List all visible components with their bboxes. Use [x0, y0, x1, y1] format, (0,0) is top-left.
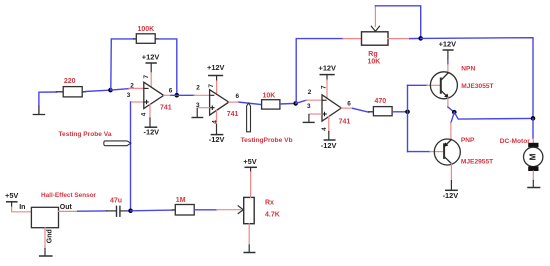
motor M1 DC-Motor [500, 138, 543, 181]
node B junction [293, 101, 298, 106]
wire 1M to Rx wiper [194, 209, 216, 211]
wire node E down to PNP emitter [451, 112, 454, 123]
node D junction [405, 110, 410, 115]
svg-text:470: 470 [375, 98, 387, 105]
svg-text:+12V: +12V [142, 52, 160, 61]
svg-text:-12V: -12V [144, 128, 160, 137]
svg-text:6: 6 [347, 100, 351, 107]
svg-text:Testing Probe Va: Testing Probe Va [59, 131, 112, 138]
svg-text:6: 6 [236, 93, 240, 100]
wire node C to right rail and down to motor node [421, 38, 533, 119]
+12V supply Q1 [439, 39, 457, 73]
svg-text:7: 7 [321, 85, 328, 89]
potentiometer Rg 10K [343, 6, 410, 66]
wire motor node down to motor [532, 118, 534, 138]
svg-text:220: 220 [64, 78, 76, 85]
wire node A to op-amp U1 pin2 [111, 89, 130, 91]
ground GND1 (left input) [33, 106, 44, 115]
svg-text:DC-Motor: DC-Motor [500, 138, 530, 145]
svg-text:4: 4 [321, 127, 328, 131]
probe Testing Probe Va [59, 131, 131, 146]
svg-text:Hall-Effect Sensor: Hall-Effect Sensor [41, 192, 97, 199]
wire U1 output to U2 pin2 [164, 94, 171, 96]
op-amp U1 741 [127, 52, 173, 136]
wire NPN emitter to node E [447, 97, 449, 107]
wire op-amp U1 pin3 down to cap node [131, 101, 144, 103]
svg-text:-12V: -12V [321, 141, 337, 150]
op-amp U3 741 [303, 64, 351, 151]
wire base bus vertical [407, 85, 409, 151]
svg-text:+12V: +12V [207, 63, 225, 72]
svg-text:10K: 10K [368, 59, 381, 66]
svg-text:2: 2 [196, 84, 200, 91]
wire R220 to node A [86, 90, 111, 91]
svg-text:M: M [529, 153, 538, 160]
svg-text:4: 4 [140, 112, 147, 116]
svg-text:741: 741 [339, 119, 351, 126]
ground Rx [244, 224, 255, 253]
svg-text:-12V: -12V [209, 135, 225, 144]
svg-text:NPN: NPN [461, 66, 475, 73]
svg-text:In: In [19, 204, 25, 211]
wire U3 output to R470 [341, 107, 352, 109]
wire 10K to node B [280, 102, 296, 105]
probe TestingProbe Vb [241, 103, 293, 144]
capacitor C1 47u [107, 198, 127, 217]
wire node F to R 1M [131, 209, 173, 212]
resistor R5 1M [173, 197, 195, 215]
node A junction [108, 88, 113, 93]
node output U1 [175, 93, 180, 98]
wire feedback left/top [111, 39, 134, 90]
svg-text:TestingProbe Vb: TestingProbe Vb [241, 137, 293, 144]
wire hall out to cap [78, 210, 107, 212]
svg-text:741: 741 [160, 105, 172, 112]
resistor R2 100K [134, 26, 158, 44]
node F junction [128, 209, 133, 214]
svg-text:4: 4 [212, 120, 219, 124]
hall-effect sensor box [19, 192, 96, 248]
svg-text:47u: 47u [110, 198, 122, 205]
+5V supply hall [5, 191, 31, 212]
svg-text:+5V: +5V [243, 157, 256, 166]
svg-text:2: 2 [308, 89, 312, 96]
wire to NPN base [408, 84, 428, 86]
-12V supply Q2 [443, 164, 459, 200]
node C junction [418, 36, 423, 41]
wire cap to node F [127, 210, 131, 212]
svg-text:Gnd: Gnd [47, 229, 54, 243]
svg-text:MJE3055T: MJE3055T [461, 83, 493, 90]
svg-text:MJE2955T: MJE2955T [461, 159, 493, 166]
svg-text:4.7K: 4.7K [265, 211, 280, 218]
svg-text:7: 7 [143, 75, 150, 79]
wire feedback right down to output node [158, 39, 177, 95]
wire to PNP base [408, 151, 431, 153]
potentiometer Rx 4.7K [244, 197, 280, 223]
svg-text:-12V: -12V [443, 191, 459, 200]
svg-text:7: 7 [208, 84, 215, 88]
resistor R220 220 [57, 78, 86, 97]
wire node B up to Rg [296, 39, 343, 104]
transistor Q2 PNP MJE2955T [434, 137, 493, 166]
svg-text:6: 6 [169, 87, 173, 94]
svg-text:Rx: Rx [265, 200, 274, 207]
svg-text:741: 741 [227, 111, 239, 118]
svg-text:3: 3 [127, 92, 131, 99]
wire Rg right to node C [410, 37, 421, 39]
svg-text:Rg: Rg [368, 51, 377, 58]
wire U2 output to R 10K [229, 101, 239, 103]
ground hall [40, 249, 52, 257]
svg-text:+12V: +12V [319, 64, 337, 73]
svg-text:+5V: +5V [5, 191, 18, 200]
svg-text:3: 3 [307, 103, 311, 110]
resistor R3 10K [262, 93, 280, 110]
ground motor [528, 181, 540, 188]
wire R470 to node D [392, 111, 407, 113]
wire node E to motor node [454, 112, 533, 119]
transistor Q1 NPN MJE3055T [430, 66, 493, 99]
node motor junction [531, 116, 536, 121]
svg-text:Out: Out [60, 204, 73, 211]
wire Rg wiper loop to node C [375, 6, 420, 39]
svg-text:2: 2 [130, 82, 134, 89]
+5V supply Rx [243, 157, 256, 198]
node E junction [452, 110, 457, 115]
svg-text:100K: 100K [138, 26, 155, 33]
resistor R4 470 [369, 98, 393, 116]
svg-text:+12V: +12V [439, 39, 457, 48]
svg-text:PNP: PNP [461, 137, 475, 144]
svg-text:1M: 1M [176, 197, 186, 204]
op-amp U2 741 [192, 63, 239, 144]
svg-text:10K: 10K [263, 93, 276, 100]
wire left input to R220 [39, 92, 57, 106]
wire node B to U3 pin2 [296, 100, 306, 103]
